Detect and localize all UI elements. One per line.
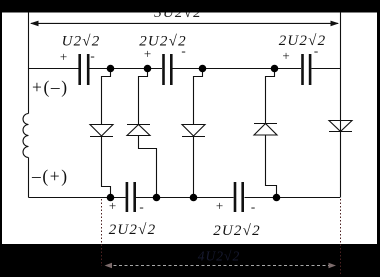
svg-text:+: + xyxy=(144,46,151,61)
svg-text:+(–): +(–) xyxy=(32,77,69,97)
svg-text:4U2√2: 4U2√2 xyxy=(198,249,240,264)
svg-text:2U2√2: 2U2√2 xyxy=(279,33,327,49)
svg-text:2U2√2: 2U2√2 xyxy=(109,222,157,238)
svg-text:–(+): –(+) xyxy=(31,166,69,186)
svg-text:+: + xyxy=(60,49,67,64)
svg-text:-: - xyxy=(314,43,318,58)
svg-text:2U2√2: 2U2√2 xyxy=(213,223,261,239)
svg-text:+: + xyxy=(109,198,116,213)
svg-text:+: + xyxy=(216,198,223,213)
svg-text:-: - xyxy=(181,43,185,58)
svg-text:+: + xyxy=(282,48,289,63)
svg-text:-: - xyxy=(139,199,143,214)
svg-text:-: - xyxy=(90,48,94,63)
svg-text:-: - xyxy=(251,199,255,214)
